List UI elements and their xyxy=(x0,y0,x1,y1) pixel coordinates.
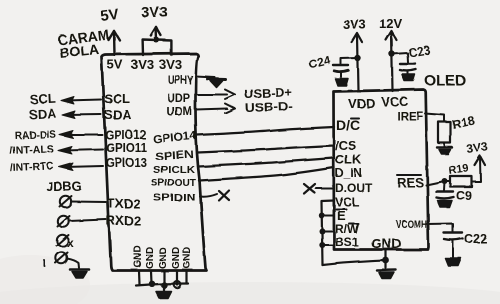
svg-text:SPIDOUT: SPIDOUT xyxy=(151,178,196,189)
svg-text:CLK: CLK xyxy=(335,152,362,167)
pin1 mark xyxy=(44,261,46,267)
svg-text:USB-D-: USB-D- xyxy=(245,99,293,115)
wire node to C9 xyxy=(443,181,446,191)
wire GND bus xyxy=(136,284,188,286)
svg-text:SPIDIN: SPIDIN xyxy=(153,192,196,204)
wire SCL out xyxy=(66,100,101,101)
svg-text:GND: GND xyxy=(182,247,193,269)
svg-text:E: E xyxy=(337,208,346,223)
wire UDP out xyxy=(196,94,228,96)
ground (C23) xyxy=(402,75,415,82)
svg-text:VCC: VCC xyxy=(381,94,409,109)
wire 3V3 bracket joining both 3V3 pins xyxy=(143,40,172,56)
wire to C24 xyxy=(341,58,358,64)
junction dot RES/R19/C9 xyxy=(442,178,448,184)
svg-text:/CS: /CS xyxy=(335,138,357,153)
arrow INT-RTC left xyxy=(59,163,73,171)
junction dot 3V3 bracket xyxy=(154,37,160,43)
svg-text:VCL: VCL xyxy=(335,195,359,209)
capacitor C24 xyxy=(334,64,349,66)
wire GND stub 3 xyxy=(163,271,165,285)
svg-text:C9: C9 xyxy=(456,189,472,203)
arrow USB-D+ xyxy=(225,90,235,100)
wire R/W to bus xyxy=(322,230,334,232)
wire D.OUT stub xyxy=(316,188,334,190)
wire UDM out xyxy=(196,109,228,110)
svg-text:5V: 5V xyxy=(107,57,123,72)
svg-text:RXD2: RXD2 xyxy=(106,213,141,228)
no-connect X (SPIDIN) xyxy=(219,191,229,201)
power arrow 5V xyxy=(109,31,120,40)
svg-text:/INT-ALS: /INT-ALS xyxy=(10,143,54,157)
svg-text:3V3: 3V3 xyxy=(159,57,182,72)
svg-text:SDA: SDA xyxy=(28,106,57,122)
svg-text:SCL: SCL xyxy=(104,91,130,106)
ground (C9) xyxy=(438,201,453,208)
wire GND pin down xyxy=(385,250,387,268)
svg-text:D.OUT: D.OUT xyxy=(335,181,373,195)
junction dot GND xyxy=(383,257,390,264)
power arrow 3V3 (U2 VDD) xyxy=(352,33,363,42)
power arrow 3V3 (R19) xyxy=(475,156,486,165)
svg-text:GPIO11: GPIO11 xyxy=(106,141,147,155)
junction dot gnd bus b xyxy=(161,282,167,288)
svg-text:3V3: 3V3 xyxy=(131,57,154,72)
ground (UPHY) xyxy=(208,78,226,82)
wire UPHY to ground xyxy=(196,77,216,78)
svg-text:UPHY: UPHY xyxy=(168,73,193,87)
junction dot gnd bus a xyxy=(149,281,155,287)
scan shading xyxy=(0,282,500,304)
wire SPIEN to /CS xyxy=(198,146,335,153)
svg-text:GND: GND xyxy=(371,236,401,251)
wire GPIO11 out xyxy=(63,150,103,151)
svg-text:UDP: UDP xyxy=(167,91,190,105)
wire TXD2 xyxy=(71,201,106,204)
svg-text:SPICLK: SPICLK xyxy=(153,164,195,176)
svg-text:D_IN: D_IN xyxy=(335,166,362,180)
wire JDBG pin4 to ground xyxy=(67,259,79,269)
wire VCC pin up xyxy=(392,33,393,91)
wire GND stub 2 xyxy=(150,271,153,284)
connector JDBG pin 4 xyxy=(56,252,67,263)
svg-text:GND: GND xyxy=(158,247,169,269)
svg-text:GPIO13: GPIO13 xyxy=(106,156,147,170)
wire SPIDIN stub xyxy=(200,194,217,197)
svg-text:/INT-RTC: /INT-RTC xyxy=(10,160,55,174)
capacitor C9 xyxy=(436,190,453,192)
svg-text:UDM: UDM xyxy=(166,104,192,118)
wire to C23 xyxy=(392,53,408,63)
power arrow 12V xyxy=(386,31,397,40)
svg-text:3V3: 3V3 xyxy=(343,17,366,32)
OLED driver U2 body xyxy=(334,90,429,250)
wire GND stub 4 xyxy=(176,271,178,285)
ground (JDBG) xyxy=(70,268,89,271)
wire bus to GND node xyxy=(323,261,386,266)
ground (U1 bottom) xyxy=(156,292,172,299)
capacitor C23 xyxy=(400,63,416,65)
arrow SDA left xyxy=(62,111,75,119)
wire R19 to 3V3 xyxy=(472,158,481,182)
resistor R18 xyxy=(439,122,451,143)
wire GPIO12 out xyxy=(64,134,102,136)
ground (U2 GND) xyxy=(377,269,396,272)
wire IREF to R18 xyxy=(425,114,445,123)
wire SPIDOUT to D_IN xyxy=(199,168,334,181)
svg-text:C22: C22 xyxy=(464,232,487,246)
svg-text:GPIO12: GPIO12 xyxy=(105,128,146,142)
svg-text:GND: GND xyxy=(171,247,182,269)
no-connect X (D.OUT) xyxy=(304,184,315,194)
capacitor C22 xyxy=(444,231,463,233)
wire VCL to bus xyxy=(322,201,335,266)
junction dot VDD/C24 xyxy=(354,55,360,61)
junction dot BS1 xyxy=(319,242,325,248)
wire RES to R19 node xyxy=(426,181,445,185)
svg-text:RAD-DIS: RAD-DIS xyxy=(15,129,56,142)
svg-text:SDA: SDA xyxy=(104,107,132,122)
svg-text:BS1: BS1 xyxy=(335,235,359,249)
svg-text:GND: GND xyxy=(145,247,156,269)
svg-text:RES: RES xyxy=(397,175,424,190)
arrow RAD-DIS left xyxy=(59,131,73,139)
arrow INT-ALS left xyxy=(58,147,72,155)
connector JDBG pin 2 xyxy=(58,216,69,227)
junction ring gnd bus c xyxy=(174,281,181,288)
svg-text:TXD2: TXD2 xyxy=(107,196,140,211)
svg-text:12V: 12V xyxy=(379,16,402,31)
svg-text:SCL: SCL xyxy=(29,91,56,107)
wire GND stub 5 xyxy=(185,271,187,284)
ground (C24) xyxy=(335,79,348,86)
wire to R19 xyxy=(445,180,451,182)
svg-text:3V3: 3V3 xyxy=(465,139,488,156)
MCU module U1 body xyxy=(102,54,207,271)
junction dot E xyxy=(319,213,325,219)
svg-text:VCOMH: VCOMH xyxy=(396,219,427,231)
resistor R19 xyxy=(450,176,472,187)
arrow SCL left xyxy=(61,97,74,105)
wire VCOMH to C22 xyxy=(427,224,453,232)
wire 5V pin up xyxy=(113,31,116,55)
ground (C22) xyxy=(445,258,461,266)
svg-text:VDD: VDD xyxy=(348,96,375,111)
svg-text:OLED: OLED xyxy=(424,72,466,89)
wire SPICLK to CLK xyxy=(198,158,334,167)
svg-text:5V: 5V xyxy=(99,6,119,25)
junction dot VCC/C23 xyxy=(389,51,395,57)
junction dot R/W xyxy=(319,228,325,234)
wire GPIO13 out xyxy=(64,166,103,167)
wire VDD pin up xyxy=(357,35,358,91)
svg-text:GND: GND xyxy=(133,246,144,268)
connector JDBG pin 3 (unconnected) xyxy=(57,235,68,246)
wire gnd bus down xyxy=(163,285,165,291)
wire GND stub 1 xyxy=(138,271,141,285)
wire RXD2 xyxy=(69,220,106,222)
wire SDA out xyxy=(67,114,101,117)
power arrow 3V3 (left chip) xyxy=(151,27,161,36)
wire 3V3 up xyxy=(155,27,158,40)
connector JDBG pin 1 xyxy=(60,196,71,207)
ground (R18) xyxy=(437,146,452,148)
wire E to bus xyxy=(322,215,334,217)
wire BS1 to bus xyxy=(322,244,334,246)
svg-text:SPIEN: SPIEN xyxy=(155,149,195,163)
svg-text:x: x xyxy=(67,236,74,250)
arrow USB-D- xyxy=(225,104,235,114)
svg-text:3V3: 3V3 xyxy=(141,4,168,21)
svg-text:IREF: IREF xyxy=(397,111,423,123)
wire GPIO14 to D/C xyxy=(197,127,334,135)
svg-text:JDBG: JDBG xyxy=(46,179,82,194)
